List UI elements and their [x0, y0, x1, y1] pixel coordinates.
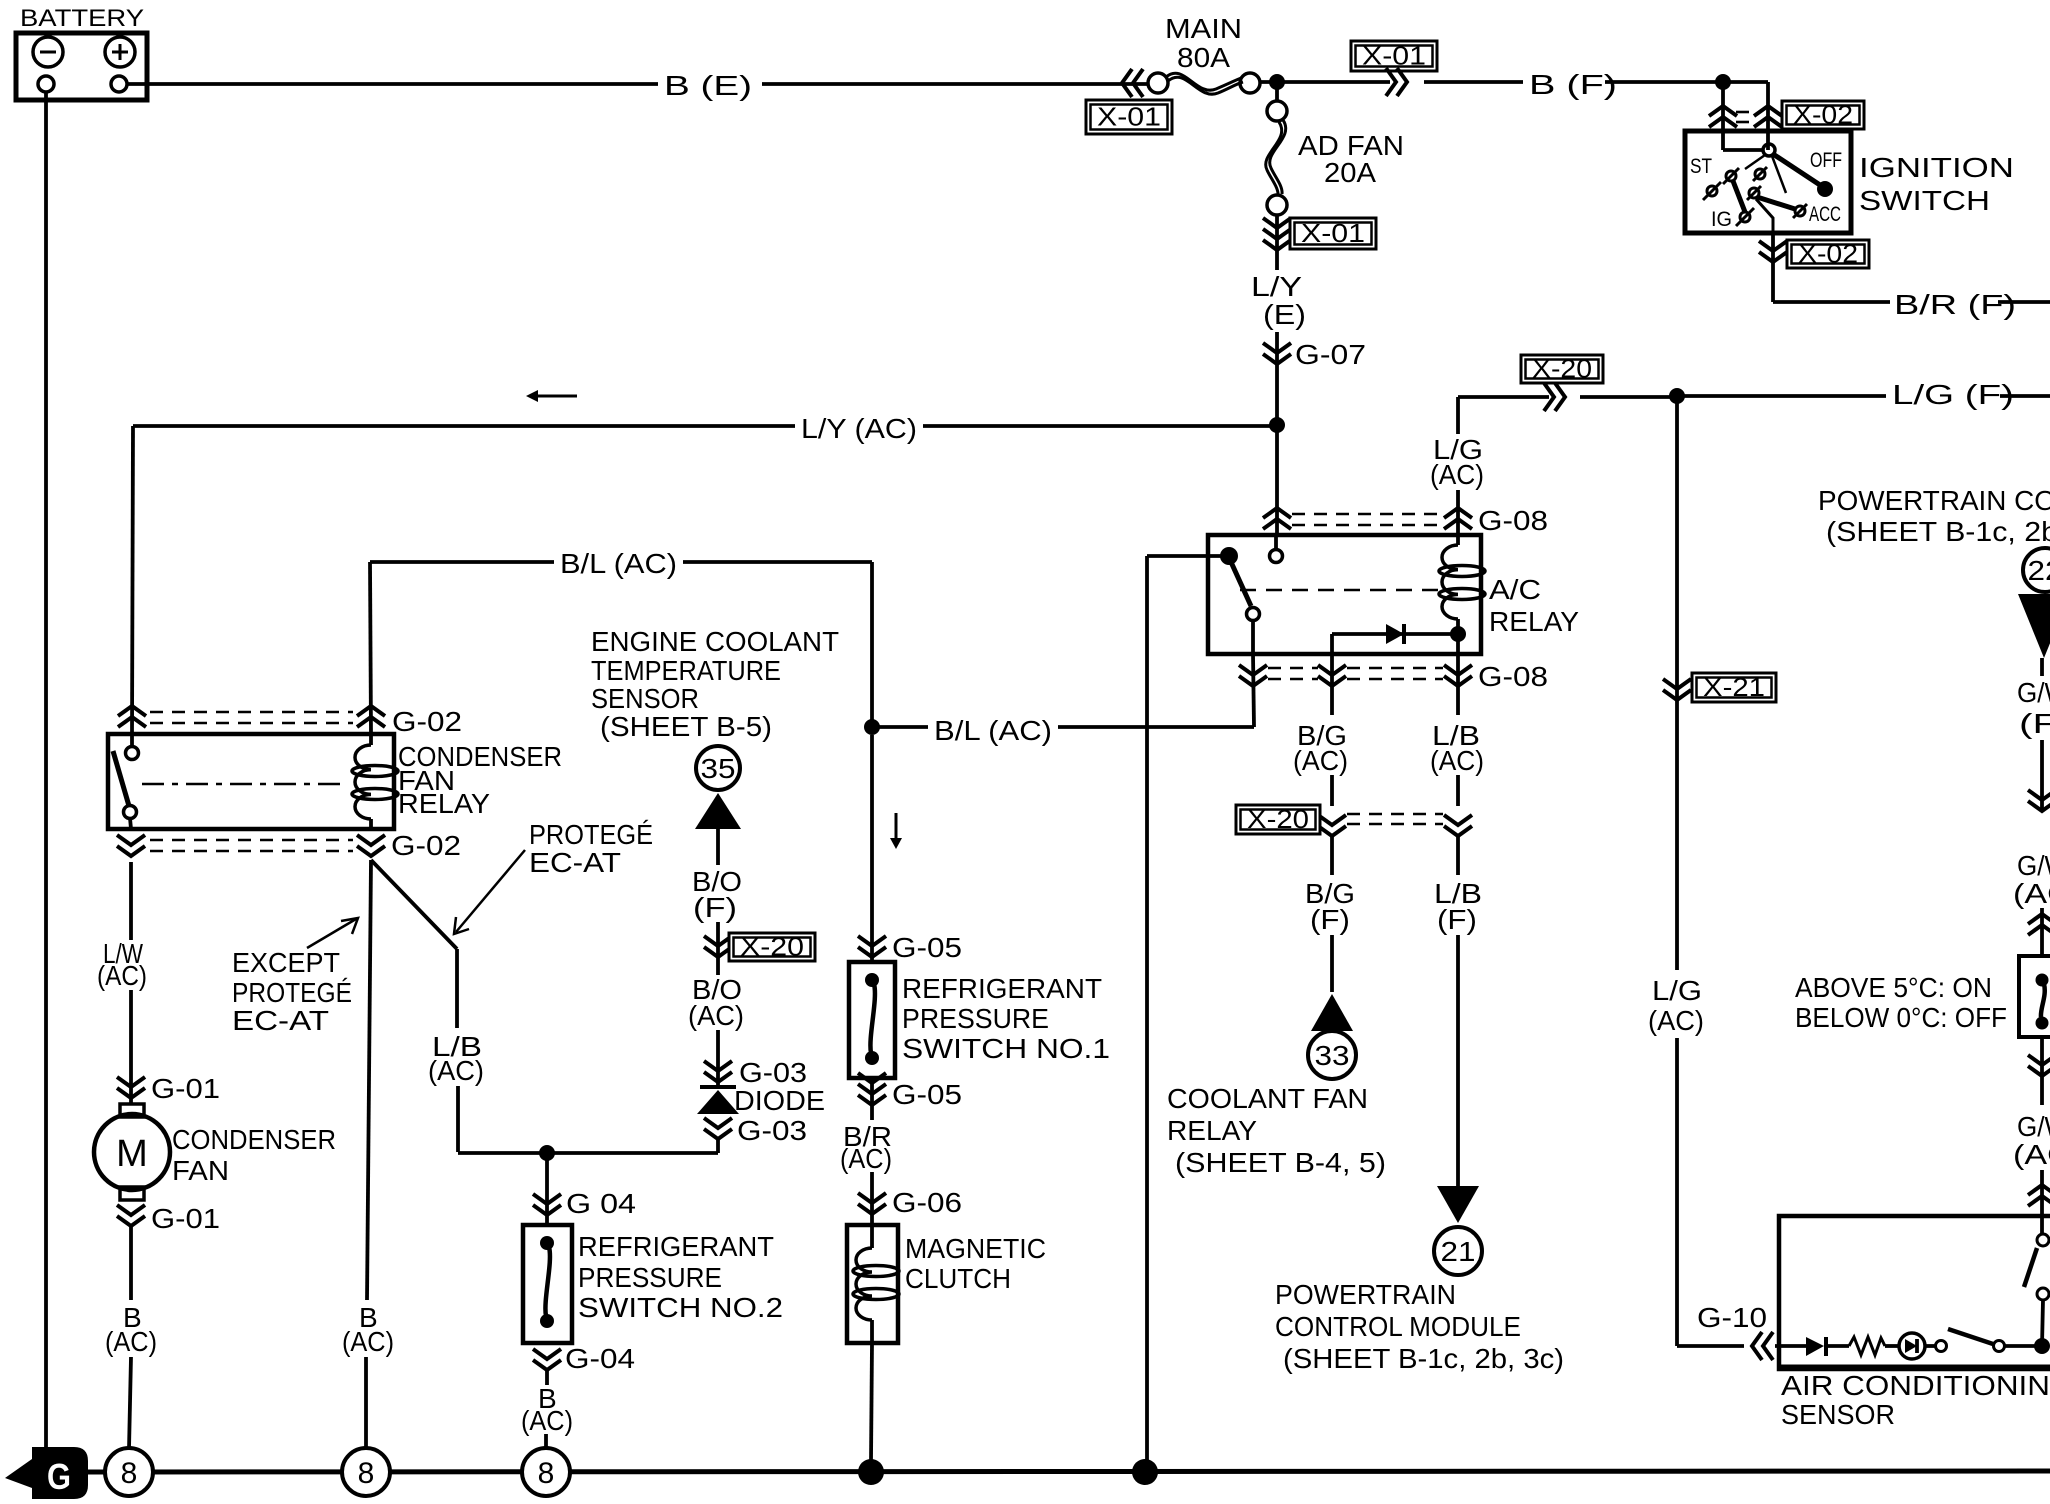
connector G-02 chevrons (bottom): [117, 846, 145, 856]
ignition switch contact mid lower: [1749, 188, 1759, 198]
node ground junction (magnetic clutch): [858, 1459, 884, 1485]
wire to ground joint 8: [544, 1434, 548, 1449]
svg-text:(SHEET B-1c, 2b, 3c): (SHEET B-1c, 2b, 3c): [1283, 1343, 1564, 1374]
connector G-05 chevron (top): [858, 947, 886, 957]
svg-text:(F): (F): [1437, 904, 1477, 935]
svg-text:(SHEET B-1c, 2b: (SHEET B-1c, 2b: [1826, 516, 2050, 547]
svg-text:33: 33: [1315, 1040, 1350, 1071]
node junction at refrigerant pressure switch No.2 column: [539, 1145, 555, 1161]
svg-text:G-01: G-01: [151, 1203, 220, 1234]
ignition switch contact ST2: [1707, 186, 1717, 196]
svg-text:REFRIGERANT: REFRIGERANT: [902, 973, 1102, 1004]
svg-text:X-21: X-21: [1703, 672, 1765, 702]
svg-text:8: 8: [358, 1457, 375, 1490]
svg-text:X-01: X-01: [1097, 102, 1161, 132]
wire to sensor node: [2005, 1344, 2042, 1348]
connector chevron (below thermo switch): [2028, 1066, 2050, 1076]
connector G-07 chevron: [1263, 354, 1291, 364]
svg-text:8: 8: [538, 1457, 555, 1490]
ground joint 8 (condenser fan): [105, 1448, 153, 1496]
connector X-02 chevrons (top): [1709, 106, 1737, 116]
svg-text:SENSOR: SENSOR: [1781, 1399, 1895, 1430]
refrigerant pressure switch No.1 contacts: [865, 973, 879, 987]
connector G-04 chevron (bottom): [533, 1360, 561, 1370]
connector X-21 box: [1692, 673, 1776, 702]
wire thermo switch down: [2040, 1037, 2044, 1105]
svg-text:EC-AT: EC-AT: [529, 847, 621, 878]
svg-text:PROTEGÉ: PROTEGÉ: [529, 819, 653, 850]
wire L/B (F) leg: [1456, 836, 1460, 875]
svg-text:MAIN: MAIN: [1165, 13, 1242, 44]
magnetic clutch box: [847, 1225, 898, 1343]
svg-text:8: 8: [121, 1457, 138, 1490]
connector X-20 chevron (B/O): [704, 947, 732, 957]
connector X-01 box (below left): [1086, 100, 1172, 134]
wire A/C relay arm feed: [1147, 554, 1222, 558]
svg-text:RELAY: RELAY: [1489, 606, 1579, 637]
wire L/G(F) horizontal: [1458, 395, 1549, 399]
wire sensor series chain: [1775, 1344, 1806, 1348]
wire to thermo switch: [2040, 908, 2044, 956]
sensor internal thermo contact upper: [2040, 1216, 2044, 1234]
svg-text:G-02: G-02: [392, 706, 462, 737]
svg-text:(F): (F): [1310, 904, 1350, 935]
thermo switch contacts: [2036, 974, 2049, 987]
svg-text:G-01: G-01: [151, 1073, 220, 1104]
ignition switch ST-IG bar: [1733, 181, 1745, 212]
svg-text:POWERTRAIN: POWERTRAIN: [1275, 1279, 1456, 1310]
ignition switch output wire: [1756, 199, 1773, 233]
svg-text:ABOVE 5°C: ON: ABOVE 5°C: ON: [1795, 972, 1992, 1003]
wire B/R (F) horizontal: [1773, 300, 1890, 304]
condenser fan relay lower contact: [124, 806, 137, 819]
wire B(F) to ignition switch branch: [1605, 80, 1723, 84]
A/C relay clamp diode: [1332, 632, 1452, 636]
svg-text:G-10: G-10: [1697, 1302, 1767, 1333]
wire B/L to refrigerant pressure switch No.1: [870, 735, 874, 962]
connector G-02 chevrons (top): [118, 706, 146, 716]
off-sheet connector 33: [1308, 1031, 1356, 1079]
off-sheet connector 22: [2023, 548, 2050, 592]
sensor resistor: [1849, 1337, 1885, 1355]
svg-text:G-03: G-03: [737, 1115, 807, 1146]
ignition switch ACC bar: [1757, 197, 1795, 209]
connector X-20 chevrons row: [1318, 826, 1346, 836]
svg-text:(AC): (AC): [428, 1055, 484, 1086]
wire arm feed to ground bus: [1145, 556, 1149, 1472]
svg-text:(AC): (AC): [2013, 1139, 2050, 1170]
node junction on L/G(F): [1669, 388, 1685, 404]
svg-text:(AC): (AC): [342, 1326, 394, 1357]
wire motor to B label: [129, 1226, 133, 1300]
svg-text:CONTROL MODULE: CONTROL MODULE: [1275, 1311, 1521, 1342]
connector chevron (into thermo switch): [2028, 914, 2050, 924]
wire L/G(AC) down to A/C relay coil: [1456, 397, 1460, 434]
svg-text:(AC): (AC): [1648, 1005, 1704, 1036]
svg-text:G-06: G-06: [892, 1187, 962, 1218]
svg-text:(AC): (AC): [521, 1405, 573, 1436]
svg-text:G-08: G-08: [1478, 661, 1548, 692]
svg-text:SWITCH: SWITCH: [1859, 185, 1990, 216]
wire B/L down-leg: [870, 562, 874, 727]
ignition switch rotor contact: [1763, 144, 1775, 156]
condenser fan relay movable arm: [113, 751, 129, 806]
wire to ground joint 8: [129, 1357, 131, 1449]
wire to G-04: [545, 1153, 549, 1225]
arrow EXCEPT PROTEGE EC-AT: [307, 919, 356, 948]
svg-text:IGNITION: IGNITION: [1859, 152, 2014, 183]
condenser fan relay coil: [369, 734, 373, 745]
svg-text:G 04: G 04: [566, 1188, 636, 1219]
svg-text:PRESSURE: PRESSURE: [902, 1003, 1049, 1034]
wire B(E) battery positive feed: [127, 82, 658, 86]
svg-text:REFRIGERANT: REFRIGERANT: [578, 1231, 774, 1262]
svg-text:BATTERY: BATTERY: [20, 5, 144, 32]
connector X-02 box (bottom): [1787, 240, 1869, 268]
ground joint 8 (pressure switch leg): [522, 1448, 570, 1496]
svg-text:CONDENSER: CONDENSER: [172, 1124, 336, 1155]
arrow to powertrain control module (down triangle): [1437, 1186, 1479, 1223]
wire into air conditioning sensor: [2040, 1170, 2044, 1216]
svg-text:X-01: X-01: [1362, 41, 1426, 71]
wire PROTEGE EC-AT diagonal branch: [371, 860, 457, 949]
wire L/Y (AC) horizontal: [133, 424, 795, 428]
sensor diode: [1806, 1337, 1824, 1356]
svg-text:(AC): (AC): [1430, 745, 1484, 776]
condenser fan relay internal dashed link: [142, 783, 348, 786]
svg-text:B (F): B (F): [1529, 69, 1617, 100]
wire to B label: [545, 1370, 549, 1385]
battery B+ / B- terminals: [16, 33, 147, 100]
magnetic clutch coil: [870, 1225, 874, 1248]
wire L/B leg: [1456, 654, 1460, 715]
svg-text:B (E): B (E): [664, 70, 752, 101]
svg-text:L/Y (AC): L/Y (AC): [801, 413, 917, 444]
svg-text:(AC): (AC): [840, 1143, 892, 1174]
wire diode to junction rail: [716, 1139, 720, 1153]
svg-text:(F): (F): [2019, 708, 2050, 739]
node junction B/L (AC): [864, 719, 880, 735]
condenser fan relay box: [108, 734, 394, 829]
svg-text:COOLANT FAN: COOLANT FAN: [1167, 1083, 1368, 1114]
wire battery negative to ground bus: [44, 92, 48, 1452]
ignition switch ST contact: [1745, 155, 1765, 169]
svg-text:OFF: OFF: [1810, 149, 1842, 172]
connector chevron (G/W down): [2028, 801, 2050, 811]
svg-text:(AC): (AC): [1430, 459, 1484, 490]
wire B/R to magnetic clutch: [870, 1172, 874, 1225]
svg-text:(F): (F): [693, 892, 737, 923]
A/C relay box: [1208, 535, 1481, 654]
wire diode branch down: [1330, 634, 1334, 654]
svg-text:G-07: G-07: [1295, 339, 1366, 370]
sensor internal thermo contact lower: [2037, 1288, 2049, 1300]
connector G-08 chevrons (bottom): [1239, 676, 1267, 686]
fuse MAIN 80A: [1148, 73, 1168, 93]
condenser fan motor: [120, 1104, 144, 1117]
svg-text:(E): (E): [1263, 299, 1306, 330]
svg-text:ST: ST: [1690, 155, 1712, 178]
svg-text:X-01: X-01: [1301, 218, 1365, 248]
connector X-02 chevron (bottom): [1759, 252, 1787, 262]
wire to chevron: [2040, 740, 2044, 811]
connector G-03 chevron (top): [704, 1072, 732, 1082]
node junction at MAIN fuse output: [1260, 80, 1390, 84]
svg-text:B/R (F): B/R (F): [1894, 289, 2016, 320]
connector G-08 chevrons (top): [1263, 508, 1291, 518]
wire junction rail horizontal: [458, 1151, 718, 1155]
refrigerant pressure switch No.2 contacts: [540, 1236, 554, 1250]
svg-text:CLUTCH: CLUTCH: [905, 1263, 1011, 1294]
air conditioning sensor box: [1779, 1216, 2050, 1369]
wire A/C relay contact to B/L (AC): [1253, 654, 1254, 727]
ignition switch ACC contact: [1795, 206, 1805, 216]
svg-text:AIR CONDITIONIN: AIR CONDITIONIN: [1781, 1370, 2050, 1401]
connector G-06 chevron: [858, 1204, 886, 1214]
svg-text:A/C: A/C: [1489, 574, 1541, 605]
wire fuse output: [1275, 215, 1279, 270]
connector X-01 chevron (below fuse): [1263, 240, 1291, 250]
wire L/Y to A/C relay switch contact: [1275, 425, 1279, 535]
svg-text:ENGINE COOLANT: ENGINE COOLANT: [591, 626, 839, 657]
svg-text:X-20: X-20: [740, 932, 804, 962]
svg-text:G-02: G-02: [391, 830, 461, 861]
svg-text:ACC: ACC: [1809, 203, 1841, 226]
ignition switch IG contact: [1740, 212, 1750, 222]
arrow to coolant fan relay (up triangle): [1311, 994, 1353, 1031]
arrow PROTEGE EC-AT: [456, 850, 525, 932]
connector G-04 chevron (top): [533, 1205, 561, 1215]
wire ground bus: [84, 1471, 2050, 1472]
wire ignition output B/R: [1771, 233, 1775, 302]
svg-text:SWITCH NO.1: SWITCH NO.1: [902, 1033, 1110, 1064]
svg-text:SWITCH NO.2: SWITCH NO.2: [578, 1292, 783, 1323]
wire G/W leg 1: [2040, 658, 2044, 676]
A/C relay movable arm: [1231, 562, 1251, 606]
wire B/G leg: [1330, 654, 1334, 715]
connector X-20 box (row): [1236, 805, 1320, 834]
node junction coil-diode: [1450, 626, 1466, 642]
wire B/L (AC) upper horizontal: [370, 560, 554, 564]
ignition switch box: [1685, 131, 1851, 233]
off-sheet connector 35: [696, 746, 740, 790]
svg-text:(SHEET B-4, 5): (SHEET B-4, 5): [1175, 1147, 1386, 1178]
ignition switch contact mid upper: [1755, 169, 1765, 179]
svg-text:L/G: L/G: [1652, 975, 1702, 1006]
svg-text:X-02: X-02: [1798, 239, 1858, 269]
svg-text:IG: IG: [1711, 208, 1732, 231]
wire L/W to motor: [129, 990, 133, 1104]
svg-text:B/L (AC): B/L (AC): [560, 548, 677, 579]
wire B/O leg: [716, 829, 720, 865]
svg-text:G-03: G-03: [739, 1057, 807, 1088]
svg-text:G/W: G/W: [2017, 677, 2050, 708]
svg-text:X-20: X-20: [1247, 804, 1309, 834]
svg-text:G-04: G-04: [565, 1343, 635, 1374]
ignition switch OFF arm: [1773, 154, 1820, 185]
A/C relay switch fixed contact: [1274, 535, 1278, 549]
svg-text:21: 21: [1441, 1236, 1476, 1267]
wire L/G to air conditioning sensor: [1675, 1038, 1679, 1346]
svg-text:DIODE: DIODE: [734, 1085, 825, 1116]
connector X-20 chevron (right): [1555, 383, 1565, 411]
svg-text:PRESSURE: PRESSURE: [578, 1262, 722, 1293]
wire to B/R label: [870, 1078, 874, 1120]
arrow to sheet B-5 (up triangle): [695, 793, 741, 829]
connector chevron (into sensor box): [2028, 1185, 2050, 1195]
svg-text:L/Y: L/Y: [1251, 271, 1302, 302]
wire relay to L/W label: [129, 862, 133, 940]
svg-text:G/W: G/W: [2017, 850, 2050, 881]
svg-text:G/W: G/W: [2017, 1111, 2050, 1142]
svg-text:BELOW 0°C: OFF: BELOW 0°C: OFF: [1795, 1002, 2007, 1033]
connector G-03 chevron (bottom): [704, 1129, 732, 1139]
svg-text:L/G (F): L/G (F): [1892, 379, 2014, 410]
diode (condenser fan circuit): [700, 1085, 736, 1089]
wire B(E) continued to MAIN fuse: [762, 82, 1148, 86]
sensor switch contact right: [1994, 1341, 2005, 1352]
svg-text:B/L (AC): B/L (AC): [934, 715, 1052, 746]
connector G-10 chevron: [1752, 1332, 1762, 1360]
svg-text:TEMPERATURE: TEMPERATURE: [591, 655, 781, 686]
arrow direction marker (left): [538, 395, 577, 398]
off-sheet connector 21: [1434, 1227, 1482, 1275]
svg-text:(AC): (AC): [1293, 745, 1348, 776]
fuse AD FAN 20A: [1275, 89, 1279, 101]
wire L/Y to G-07: [1275, 332, 1279, 425]
wire L/Y down-leg to condenser fan relay: [132, 426, 133, 734]
arrow direction marker (down): [895, 813, 898, 839]
node ground junction (A/C relay arm): [1132, 1459, 1158, 1485]
sensor switch contact left: [1936, 1341, 1947, 1352]
svg-text:80A: 80A: [1177, 42, 1230, 73]
A/C relay lower contact: [1247, 608, 1260, 621]
svg-text:G-05: G-05: [892, 932, 962, 963]
svg-text:20A: 20A: [1324, 157, 1376, 188]
sensor LED indicator: [1885, 1344, 1900, 1348]
svg-text:X-20: X-20: [1532, 354, 1592, 384]
svg-text:PROTEGÉ: PROTEGÉ: [232, 977, 352, 1008]
connector X-01 chevron (right): [1397, 68, 1407, 96]
refrigerant pressure switch No.1 box: [849, 962, 895, 1078]
svg-text:MAGNETIC: MAGNETIC: [905, 1233, 1046, 1264]
svg-text:(AC): (AC): [688, 1000, 744, 1031]
wire relay coil leg to ground: [367, 860, 371, 1300]
wire to G-03: [716, 1030, 720, 1086]
sensor internal thermo arm: [2024, 1248, 2037, 1287]
arrow from connector 22 (down triangle): [2018, 594, 2050, 658]
connector X-01 box (below fuse): [1290, 218, 1376, 249]
thermo switch box: [2019, 956, 2050, 1037]
node sensor junction: [2034, 1338, 2050, 1354]
connector G-01 chevron (top): [117, 1088, 145, 1098]
connector X-01 chevron (left of MAIN fuse): [1122, 69, 1132, 97]
svg-text:G: G: [47, 1456, 71, 1497]
svg-text:(AC): (AC): [2013, 878, 2050, 909]
svg-text:FAN: FAN: [172, 1155, 229, 1186]
wire clutch to ground bus: [871, 1343, 872, 1461]
wire L/B to junction rail: [456, 1086, 460, 1152]
connector X-01 box (top right): [1351, 41, 1437, 71]
ignition switch thin arm: [1772, 156, 1786, 193]
svg-text:EC-AT: EC-AT: [232, 1005, 329, 1036]
wire ignition feed verticals: [1721, 82, 1725, 150]
wire B/L (AC) lower horizontal: [878, 725, 928, 729]
node junction on B(F) at ignition branch: [1715, 74, 1731, 90]
ground symbol G: [5, 1447, 88, 1499]
A/C relay coil: [1456, 535, 1460, 545]
svg-text:22: 22: [2028, 555, 2050, 586]
connector X-21 chevron: [1663, 690, 1691, 700]
node junction L/Y at AD-FAN column: [1269, 417, 1285, 433]
svg-text:35: 35: [701, 753, 736, 784]
svg-text:G-05: G-05: [892, 1079, 962, 1110]
wire B/G (F) leg: [1330, 836, 1334, 875]
refrigerant pressure switch No.2 box: [523, 1225, 572, 1343]
svg-text:X-02: X-02: [1793, 100, 1853, 130]
connector G-05 chevron (bottom): [858, 1095, 886, 1105]
wire to X-20: [716, 922, 720, 975]
svg-text:G-08: G-08: [1478, 505, 1548, 536]
wire B(F): [1424, 80, 1523, 84]
svg-text:RELAY: RELAY: [398, 788, 490, 819]
wire B/L branch down-leg to condenser fan relay coil: [370, 562, 371, 734]
wire L/G down from junction: [1675, 396, 1679, 970]
A/C relay internal dashed link: [1240, 589, 1440, 592]
node A/C relay arm pivot: [1220, 547, 1238, 565]
svg-text:EXCEPT: EXCEPT: [232, 947, 340, 978]
svg-text:RELAY: RELAY: [1167, 1115, 1257, 1146]
sensor switch arm: [1948, 1329, 1993, 1344]
connector X-02 box (top): [1782, 101, 1864, 129]
ground joint 8 (relay leg): [342, 1448, 390, 1496]
connector X-20 box (B/O): [729, 933, 815, 961]
svg-text:(AC): (AC): [97, 960, 147, 991]
connector G-01 chevron (bottom): [117, 1216, 145, 1226]
connector X-20 box (top right): [1521, 355, 1603, 383]
condenser fan relay fixed contact: [130, 734, 134, 746]
svg-text:(SHEET B-5): (SHEET B-5): [600, 711, 772, 742]
svg-text:M: M: [116, 1133, 148, 1175]
svg-text:POWERTRAIN CO: POWERTRAIN CO: [1818, 485, 2050, 516]
svg-text:SENSOR: SENSOR: [591, 683, 699, 714]
svg-text:(AC): (AC): [105, 1326, 157, 1357]
